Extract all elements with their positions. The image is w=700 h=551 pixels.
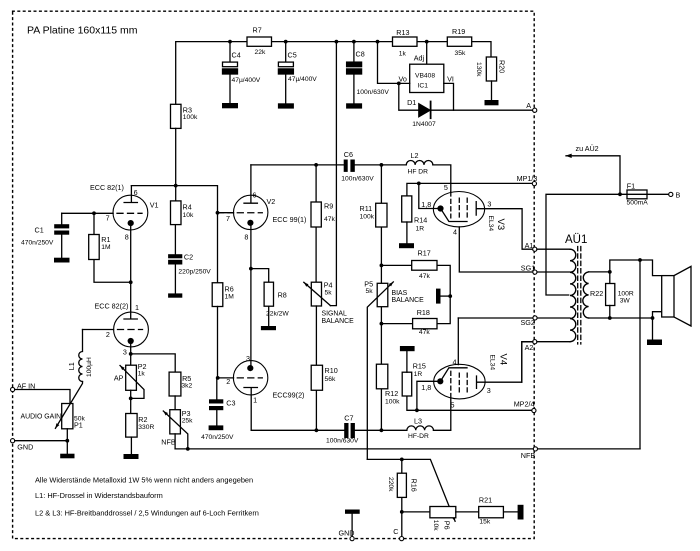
wire bias node N1 (367, 459, 455, 521)
svg-text:A2: A2 (525, 343, 534, 352)
wire P4 wiper to B+ rail (330, 42, 336, 306)
svg-text:R9: R9 (324, 202, 333, 211)
node B terminal (669, 190, 681, 199)
svg-text:Adj: Adj (414, 53, 425, 62)
wire NFB line (175, 448, 640, 450)
junction (129, 280, 133, 284)
junction (65, 439, 69, 443)
resistor R15 1R (402, 351, 426, 396)
svg-text:1N4007: 1N4007 (412, 121, 436, 128)
svg-text:R4: R4 (183, 203, 192, 212)
svg-text:22k: 22k (255, 49, 266, 56)
svg-text:D1: D1 (407, 98, 416, 107)
resistor R13 (393, 28, 418, 58)
svg-text:HF DR: HF DR (408, 169, 429, 176)
svg-text:3: 3 (123, 348, 127, 357)
svg-text:SG2: SG2 (521, 318, 535, 327)
junction (417, 182, 421, 186)
svg-text:R14: R14 (414, 216, 427, 225)
ground (209, 425, 224, 430)
junction (352, 40, 356, 44)
junction (618, 192, 622, 196)
svg-text:R13: R13 (396, 28, 409, 37)
svg-text:25k: 25k (182, 417, 193, 424)
svg-text:BALANCE: BALANCE (392, 297, 425, 304)
potentiometer P3 NFB 25k (161, 409, 193, 449)
capacitor C4 (223, 42, 261, 104)
wire secondary top (589, 260, 662, 284)
svg-text:47µ/400V: 47µ/400V (232, 77, 261, 84)
wire zu AÜ2 tap (565, 144, 620, 194)
wire SG2 to transformer (537, 317, 570, 319)
svg-text:PA Platine 160x115 mm: PA Platine 160x115 mm (27, 25, 138, 37)
svg-text:R18: R18 (417, 308, 430, 317)
node GND board terminal (339, 528, 355, 540)
potentiometer P4 SIGNAL BALANCE 5k (304, 281, 354, 325)
wire V1 anode to R3/R4 node and V2 grid (131, 186, 233, 213)
svg-text:1R: 1R (416, 226, 425, 233)
svg-text:ECC 82(1): ECC 82(1) (90, 183, 124, 192)
ground (54, 258, 70, 263)
svg-text:L1: HF-Drossel in Widerstandsb: L1: HF-Drossel in Widerstandsbauform (35, 491, 163, 500)
junction (174, 184, 178, 188)
svg-text:6: 6 (253, 191, 257, 200)
junction (651, 316, 655, 320)
svg-text:1M: 1M (225, 294, 235, 301)
svg-text:C: C (393, 527, 398, 536)
wire IC1 VI pin (444, 83, 454, 110)
resistor R3 (171, 104, 198, 128)
junction (425, 40, 429, 44)
svg-text:SIGNAL: SIGNAL (322, 311, 347, 318)
wire P2 to R2 (130, 390, 132, 413)
svg-text:R10: R10 (325, 366, 338, 375)
svg-text:35k: 35k (455, 50, 466, 57)
ground (168, 293, 182, 297)
junction (249, 267, 253, 271)
capacitor C2 (168, 225, 211, 294)
svg-text:VI: VI (447, 74, 454, 83)
wire SG1 to transformer (537, 271, 570, 273)
resistor R9 47k (311, 165, 335, 282)
inductor L1 100uH (67, 330, 93, 382)
svg-text:1: 1 (253, 395, 257, 404)
junction (284, 40, 288, 44)
wire AF IN to P1 (15, 390, 70, 404)
ground (60, 454, 74, 459)
svg-text:100µH: 100µH (86, 357, 93, 377)
potentiometer P6 10k (402, 507, 456, 532)
svg-text:3W: 3W (620, 297, 631, 304)
note resistor spec (35, 476, 253, 485)
svg-text:1k: 1k (399, 51, 407, 58)
resistor R14 1R (402, 196, 427, 243)
svg-text:6: 6 (134, 188, 138, 197)
svg-text:V2: V2 (267, 197, 276, 206)
svg-text:V3: V3 (495, 219, 506, 231)
svg-text:L2 & L3: HF-Breitbanddrossel /: L2 & L3: HF-Breitbanddrossel / 2,5 Windu… (35, 509, 259, 518)
svg-text:10k: 10k (432, 520, 439, 531)
svg-text:EL34: EL34 (487, 216, 494, 232)
svg-text:47k: 47k (419, 273, 430, 280)
svg-text:NFB: NFB (521, 451, 536, 460)
potentiometer P5 BIAS BALANCE 5k (364, 265, 424, 459)
resistor R16 220k (387, 459, 419, 512)
svg-text:L3: L3 (414, 417, 422, 426)
junction (380, 264, 384, 268)
svg-text:3: 3 (487, 386, 491, 395)
svg-text:A: A (526, 101, 531, 110)
svg-text:Alle Widerstände Metalloxid 1W: Alle Widerstände Metalloxid 1W 5% wenn n… (35, 476, 253, 485)
svg-text:470n/250V: 470n/250V (201, 434, 234, 441)
resistor R6 1M (212, 283, 234, 378)
wire NFB feedback from secondary (639, 260, 641, 449)
svg-text:AUDIO GAIN: AUDIO GAIN (21, 413, 62, 420)
svg-text:2: 2 (106, 330, 110, 339)
wire R3 R4 link (175, 128, 177, 201)
svg-text:R6: R6 (225, 285, 234, 294)
svg-text:R22: R22 (590, 289, 603, 298)
wire V3 screen to SG1 (459, 227, 533, 272)
svg-text:7: 7 (106, 213, 110, 222)
svg-text:AÜ1: AÜ1 (565, 234, 587, 246)
svg-text:AP: AP (114, 374, 124, 383)
junction (380, 428, 384, 432)
svg-text:MP1/3: MP1/3 (517, 174, 538, 183)
svg-text:P6: P6 (442, 521, 451, 530)
triode V1b ECC82(2) (95, 282, 149, 365)
ground (222, 103, 238, 108)
svg-text:4: 4 (453, 228, 457, 237)
resistor R21 15k (456, 496, 518, 526)
wire A1 to transformer (537, 248, 570, 250)
resistor R19 (447, 27, 471, 57)
svg-text:100n/630V: 100n/630V (357, 89, 390, 96)
wire V1b cathode to R5 (131, 354, 176, 372)
resistor R11 100k (360, 165, 388, 266)
triode V2 ECC99(1) (218, 165, 307, 365)
node A1 terminal (525, 241, 537, 251)
node A terminal (526, 101, 537, 112)
ground (485, 100, 499, 105)
resistor R4 (171, 201, 194, 225)
junction (397, 82, 401, 86)
svg-text:ECC 82(2): ECC 82(2) (95, 302, 129, 311)
svg-text:8: 8 (125, 232, 129, 241)
wire IC1 Vo pin (378, 42, 410, 84)
wire B+ top rail (176, 42, 491, 105)
wire P1 bottom (66, 429, 68, 454)
svg-text:R20: R20 (498, 60, 507, 73)
note L2 L3 (35, 509, 259, 518)
wire V2 anode line (251, 164, 406, 166)
junction (448, 294, 452, 298)
svg-text:470n/250V: 470n/250V (21, 240, 54, 247)
svg-text:R11: R11 (360, 204, 373, 213)
svg-text:1k: 1k (138, 371, 146, 378)
transformer core (578, 247, 581, 345)
svg-text:100k: 100k (360, 214, 375, 221)
svg-text:10k: 10k (183, 212, 194, 219)
svg-text:1,8: 1,8 (421, 200, 431, 209)
svg-text:R16: R16 (410, 479, 419, 492)
junction (608, 316, 612, 320)
svg-text:15k: 15k (479, 519, 490, 526)
svg-text:C3: C3 (226, 398, 235, 407)
svg-text:B: B (676, 190, 681, 199)
svg-text:C6: C6 (344, 150, 353, 159)
ground (400, 346, 415, 351)
note L1 (35, 491, 163, 500)
capacitor C6 100n/630V (341, 150, 374, 183)
resistor R2 330R (126, 414, 155, 455)
wire MP1 line (407, 183, 533, 196)
op-amp U1 regulator IC1 VB408 (399, 42, 454, 93)
wire A2 to transformer (522, 342, 570, 383)
junction (216, 376, 220, 380)
svg-text:ECC99(2): ECC99(2) (273, 391, 305, 400)
svg-text:F1: F1 (627, 181, 635, 190)
ground (261, 326, 276, 330)
node SG1 terminal (521, 264, 537, 275)
node C terminal (393, 527, 404, 541)
svg-text:56k: 56k (325, 376, 336, 383)
svg-text:R2: R2 (138, 415, 147, 424)
wire V4 grid column (457, 318, 459, 365)
svg-text:SG1: SG1 (521, 264, 535, 273)
resistor R18 47k (381, 308, 437, 336)
junction (380, 322, 384, 326)
capacitor C8 (347, 42, 390, 104)
svg-text:V1: V1 (150, 201, 159, 210)
node MP2/4 terminal (514, 400, 536, 413)
ground (278, 103, 294, 108)
resistor R22 100R 3W (590, 284, 634, 319)
resistor R10 56k (311, 306, 337, 430)
fuse F1 500mA (627, 181, 669, 206)
svg-text:1: 1 (135, 303, 139, 312)
wire R17 R18 ground link (437, 296, 450, 324)
svg-text:VB408: VB408 (415, 73, 435, 80)
junction (216, 211, 220, 215)
resistor R20 (475, 57, 506, 100)
svg-text:100k: 100k (183, 114, 198, 121)
potentiometer P2 AP 1k (114, 362, 147, 398)
speaker (662, 266, 691, 326)
junction (400, 458, 404, 462)
resistor R5 3k2 (169, 372, 192, 410)
node A2 terminal (525, 340, 537, 352)
inductor L2 HF DR (406, 151, 451, 192)
wire GND input (15, 440, 68, 442)
svg-text:L1: L1 (67, 362, 76, 370)
junction (400, 510, 404, 514)
wire SG2 line (458, 317, 533, 319)
svg-text:L2: L2 (411, 151, 419, 160)
ground (647, 340, 662, 346)
svg-text:R12: R12 (385, 389, 398, 398)
svg-text:220k: 220k (387, 477, 394, 492)
junction (415, 408, 419, 412)
node MP1/3 terminal (517, 174, 538, 186)
inductor L3 HF-DR (407, 398, 451, 440)
board outline (dotted PCB border) (13, 11, 535, 538)
wire V3 cathode to MP1 (419, 183, 441, 208)
svg-text:GND: GND (17, 442, 33, 451)
junction (228, 40, 232, 44)
ground (124, 454, 139, 459)
junction (315, 428, 319, 432)
wire V4 cathode to MP2 (407, 381, 532, 410)
junction (380, 163, 384, 167)
svg-text:R3: R3 (183, 105, 192, 114)
wire secondary bottom (589, 312, 662, 340)
wire V1 grid input (62, 212, 113, 214)
capacitor C7 100n/630V (326, 414, 359, 445)
svg-text:500mA: 500mA (627, 200, 649, 207)
wire V2b grid (218, 377, 234, 379)
svg-text:C7: C7 (344, 414, 353, 423)
wire V2 grid column to R6 (217, 213, 219, 283)
resistor R7 (247, 26, 272, 57)
svg-text:ECC 99(1): ECC 99(1) (273, 215, 307, 224)
capacitor C3 470n/250V (201, 378, 235, 441)
svg-text:4: 4 (453, 358, 457, 367)
node SG2 terminal (521, 316, 538, 327)
node GND input terminal (11, 439, 34, 452)
resistor R12 100k (376, 324, 400, 431)
svg-text:5: 5 (444, 183, 448, 192)
junction (129, 397, 133, 401)
junction (608, 270, 612, 274)
svg-text:47k: 47k (324, 216, 335, 223)
triode V1 ECC82(1) (90, 183, 158, 282)
svg-text:C2: C2 (184, 253, 193, 262)
svg-text:C5: C5 (288, 51, 297, 60)
svg-text:zu AÜ2: zu AÜ2 (576, 144, 599, 153)
svg-text:P1: P1 (74, 421, 83, 430)
wire D1 cathode to terminal A (432, 109, 533, 111)
ground (345, 510, 360, 537)
svg-text:220p/250V: 220p/250V (178, 269, 211, 276)
svg-text:5k: 5k (325, 289, 333, 296)
capacitor C1 (21, 213, 69, 257)
svg-text:130k: 130k (475, 62, 482, 77)
svg-text:100R: 100R (618, 290, 634, 297)
ground (518, 505, 524, 520)
svg-text:R8: R8 (278, 291, 287, 300)
svg-text:7: 7 (226, 214, 230, 223)
ground (399, 243, 414, 248)
junction (638, 258, 642, 262)
svg-text:EL34: EL34 (489, 355, 496, 371)
pentode V4 EL34 (421, 342, 533, 409)
wire V1b grid (83, 329, 114, 331)
svg-text:GND: GND (339, 528, 355, 537)
svg-text:47µ/400V: 47µ/400V (288, 76, 317, 83)
junction (92, 211, 96, 215)
junction (129, 352, 133, 356)
transformer AÜ1 primary (565, 234, 587, 342)
resistor R1 (89, 213, 131, 282)
svg-text:BIAS: BIAS (392, 290, 408, 297)
svg-text:100n/630V: 100n/630V (326, 438, 359, 445)
svg-text:100n/630V: 100n/630V (341, 176, 374, 183)
wire V2b anode line (251, 429, 406, 431)
capacitor C5 (278, 42, 317, 104)
node NFB terminal (521, 447, 538, 460)
svg-text:100k: 100k (385, 399, 400, 406)
resistor R8 22k/2W (251, 269, 289, 326)
ground (436, 289, 450, 304)
junction (376, 40, 380, 44)
svg-text:3: 3 (487, 200, 491, 209)
wire C bias feed (401, 512, 403, 537)
junction (314, 163, 318, 167)
svg-text:1R: 1R (414, 371, 423, 378)
svg-text:R7: R7 (253, 26, 262, 35)
svg-text:1M: 1M (101, 244, 111, 251)
title text (27, 25, 138, 37)
transformer secondary (583, 272, 589, 318)
svg-text:A1: A1 (525, 241, 534, 250)
diode D1 1N4007 (407, 98, 436, 128)
svg-text:22k/2W: 22k/2W (266, 311, 289, 318)
svg-text:R17: R17 (418, 249, 431, 258)
svg-text:IC1: IC1 (418, 83, 429, 90)
junction (335, 40, 339, 44)
node AF IN terminal (11, 382, 36, 392)
svg-text:5: 5 (451, 400, 455, 409)
svg-text:R1: R1 (101, 235, 110, 244)
potentiometer P1 AUDIO GAIN 50k (21, 382, 86, 430)
svg-text:C8: C8 (356, 50, 365, 59)
svg-text:1,8: 1,8 (421, 383, 431, 392)
triode V2b ECC99(2) (226, 354, 304, 430)
svg-text:HF-DR: HF-DR (408, 433, 429, 440)
svg-text:C1: C1 (35, 226, 44, 235)
svg-text:C4: C4 (232, 51, 241, 60)
wire B+ feed (546, 194, 627, 295)
svg-text:47k: 47k (419, 329, 430, 336)
svg-text:V4: V4 (497, 354, 508, 366)
svg-text:MP2/4: MP2/4 (514, 400, 535, 409)
svg-text:BALANCE: BALANCE (322, 318, 355, 325)
svg-text:8: 8 (244, 233, 248, 242)
resistor R17 47k (381, 249, 450, 297)
svg-text:330R: 330R (138, 424, 154, 431)
svg-text:R21: R21 (479, 496, 492, 505)
svg-text:3k2: 3k2 (181, 383, 192, 390)
svg-text:NFB: NFB (161, 438, 176, 447)
svg-text:3: 3 (246, 354, 250, 363)
pentode V3 EL34 (421, 183, 533, 249)
svg-text:5k: 5k (366, 288, 374, 295)
svg-text:R15: R15 (413, 361, 426, 370)
svg-text:R19: R19 (452, 27, 465, 36)
ground (346, 103, 362, 108)
wire Vo to D1 anode (399, 83, 419, 110)
junction (186, 447, 190, 451)
